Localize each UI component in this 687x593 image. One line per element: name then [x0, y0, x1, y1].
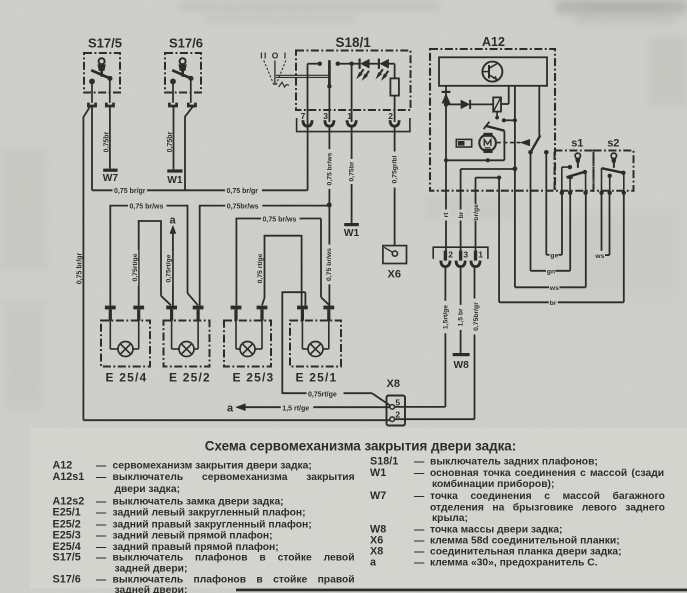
resistor in S18/1: [389, 64, 399, 122]
legend row S18/1: [370, 456, 598, 468]
mechanical link of S18/1 lever: [276, 75, 329, 77]
wire br from A12 pin 1 branch to s2 right contact: [499, 178, 624, 308]
switch S17/5 (door pillar lamp switch, left): [84, 36, 122, 103]
legend row X6: [370, 534, 620, 546]
relay armature contact of A12: [484, 112, 515, 161]
legend row W1 line1: [370, 467, 664, 479]
legend row a: [370, 556, 598, 568]
terminal strip X6 (terminal 58d): [383, 246, 407, 281]
wire 0,75 br/ws from E25/4 left pin to E25/2 right pin: [110, 201, 198, 305]
wire 0,75br/gr from A12 pin 1 to X8 pin 2: [472, 268, 480, 420]
wire A12 rail to pin 1: [476, 176, 502, 251]
wire X8 pin 2 to A12 pin 1 riser: [395, 418, 475, 420]
ground W1 below S18/1: [344, 223, 360, 239]
legend row S17/5 line2: [115, 564, 188, 575]
wire long left riser 0,75 br/gr: [77, 117, 84, 421]
wire S18/1 pin 2 to terminal strip X6, 0,75gr/bl: [390, 126, 398, 245]
connector strip of S18/1 with pins 7 3 1 2: [297, 111, 410, 132]
contact to pin 7 of S18/1: [308, 62, 322, 123]
feed arrow a (terminal 30) to E25/2 left pin, 0,75rt/ge: [165, 215, 177, 306]
switch S17/6 (door pillar lamp switch, right): [165, 36, 203, 103]
connector pins of S17/6: [169, 103, 195, 106]
wire a arrow (terminal 30 feed) 1,5 rt/ge to X8 pin 5: [227, 402, 390, 414]
legend row A12s1 line1: [53, 471, 355, 483]
lamp E25/1 (rear left rounded lamp): [290, 306, 341, 385]
wire S17/5 right pin to ground W7, label 0,75br: [103, 106, 110, 169]
wire S17/6 left pin to ground W1, label 0,75br: [167, 106, 174, 169]
servo mechanism A12 (tailgate closing servo): [430, 35, 555, 191]
lamp E25/2 (rear right rounded lamp): [164, 306, 211, 385]
wire labels rt br br/ge above connector: [441, 204, 480, 221]
wire 0,75 rt/ge bridge from E25/3 right pin to E25/1 left pin: [256, 235, 302, 306]
wire 0,75rt/ge feed from X8 pin 5 to E25/1 left pin: [282, 292, 390, 406]
ground W7: [103, 169, 119, 184]
legend row W1 line2: [432, 478, 554, 490]
connector block left of motor in A12: [456, 139, 471, 147]
lamp E25/4 (rear right flat lamp): [101, 306, 150, 385]
wire 0,75 br/ws from E25/2 right pin to S18/1 pin 3 junction: [199, 201, 329, 305]
transistor symbol in A12 control unit: [482, 62, 502, 82]
connector bracket below A12 with pins 2 3 1: [433, 247, 488, 266]
legend row E25/1: [53, 506, 306, 518]
legend row S17/6 line2: [115, 585, 188, 593]
connector strip X8 (tailgate connector): [387, 378, 406, 426]
legend row W7 line3: [432, 513, 468, 524]
legend row E25/2: [53, 518, 312, 530]
lever positions II O I of S18/1: [260, 50, 289, 87]
switch s1 (A12s1 servo switch): [555, 138, 594, 194]
legend row A12s1 line2: [115, 484, 181, 495]
legend table border: [236, 589, 687, 592]
legend row S17/6 line1: [53, 574, 355, 586]
wire ge from A12s2 contact to s1 left contact: [546, 152, 562, 259]
contact to pin 3 of S18/1: [327, 84, 331, 122]
connector pins of S17/5: [88, 103, 113, 106]
wire left branch of A12 (rt) with zener diode: [442, 86, 451, 251]
wire 0,75 br/ws from E25/3 left pin to E25/1 right pin: [236, 214, 330, 305]
wire X8 pin 5 to A12 pin 2 riser: [395, 406, 446, 408]
wire 1,5 br from A12 pin 3 to ground W8: [456, 268, 464, 354]
mechanical link motor to switch A12s2 (dashed with arrow): [497, 139, 530, 146]
legend row E25/4: [53, 541, 279, 553]
legend title: [205, 439, 516, 454]
legend row S17/5 line1: [53, 552, 355, 564]
contact to pin 1 of S18/1: [336, 62, 354, 123]
wire A12 control unit to relay contact and pin 3 branch: [513, 86, 518, 171]
ground W1 (main ground point): [167, 169, 183, 185]
wire S17/5 left pin diagonal to long left riser: [83, 106, 90, 117]
wire A12 rail to pin 3: [461, 169, 515, 251]
wire S18/1 pin 1 to ground W1, 0,75br: [347, 126, 355, 223]
legend row E25/3: [53, 530, 273, 542]
wire S17/5 left pin down to br/gr rail: [91, 106, 93, 190]
wire ws bridge between s2 left and middle contacts: [594, 193, 609, 260]
wire 1,5rt/ge from A12 pin 2 to X8 pin 5: [441, 268, 449, 407]
contact bar of S18/1: [328, 60, 331, 87]
wire X8 pin 2 long bottom run to left riser: [83, 419, 390, 421]
switch S18/1 (rear lamps switch): [296, 35, 411, 110]
legend row X8: [370, 546, 622, 558]
legend row A12s2: [53, 496, 284, 508]
lamp E25/3 (rear left flat lamp): [224, 306, 274, 385]
ground W8 (tailgate ground): [453, 353, 470, 371]
motor M of A12: [479, 133, 496, 163]
relay coil of A12 (rectangle with diagonal): [493, 86, 509, 112]
switch A12s2 (tailgate lock switch) lever: [528, 86, 548, 155]
wire S17/6 right pin diagonal down to br/gr rail: [185, 106, 193, 190]
switch s2 (A12s2 lock switch): [594, 138, 634, 194]
junction on S18/1 pin 3 wire: [327, 203, 332, 208]
legend row A12: [53, 459, 312, 471]
terminal dots under s1 and s2: [560, 191, 626, 195]
diode in A12 pointing right: [446, 100, 493, 109]
wire 0,75rt/ge bridge from E25/4 right pin to E25/2 left pin: [131, 220, 171, 305]
illumination LED 1 in S18/1: [352, 59, 369, 81]
legend row W7 line1: [370, 490, 665, 502]
wire 0,75 br/gr rail to S18/1 pin 7: [92, 122, 308, 195]
wire ws from A12 to s1 right contact: [515, 169, 586, 292]
wire gn from A12s2 pivot to s1 middle contact: [531, 152, 571, 275]
wire motor bottom rail in A12: [446, 159, 504, 161]
control unit box inside A12: [439, 57, 547, 86]
wire S18/1 pin 3 down to E25/1 right pin, 0,75 br/ws: [325, 126, 334, 305]
legend row W7 line2: [430, 501, 665, 513]
legend row W8: [370, 524, 562, 536]
illumination LED 2 in S18/1: [369, 59, 388, 81]
